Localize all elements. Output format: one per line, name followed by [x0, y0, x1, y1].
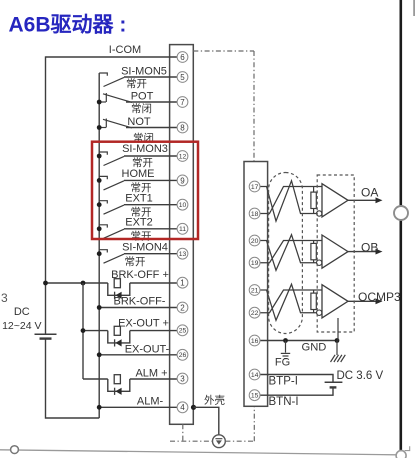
svg-text:14: 14 [251, 372, 259, 379]
svg-text:FG: FG [275, 357, 290, 369]
svg-text:ALM +: ALM + [135, 367, 167, 379]
svg-text:常开: 常开 [126, 77, 147, 90]
svg-text:10: 10 [179, 202, 187, 209]
svg-text:BTP-I: BTP-I [269, 375, 298, 387]
svg-text:20: 20 [251, 238, 259, 245]
svg-text:16: 16 [251, 338, 259, 345]
svg-text:EXT1: EXT1 [125, 193, 153, 205]
svg-text:13: 13 [179, 251, 187, 258]
svg-text:3: 3 [180, 374, 185, 383]
svg-text:A6B驱动器 :: A6B驱动器 : [9, 14, 127, 37]
svg-text:ALM-: ALM- [137, 396, 164, 408]
svg-text:3: 3 [1, 291, 8, 305]
svg-text:NOT: NOT [127, 116, 151, 128]
svg-text:15: 15 [251, 393, 259, 400]
svg-text:SI-MON3: SI-MON3 [122, 143, 168, 155]
svg-text:8: 8 [180, 123, 185, 132]
svg-text:POT: POT [131, 91, 154, 103]
svg-text:19: 19 [251, 260, 259, 267]
svg-text:BRK-OFF +: BRK-OFF + [111, 269, 169, 281]
svg-text:OB: OB [361, 240, 378, 254]
svg-text:EXT2: EXT2 [125, 217, 153, 229]
svg-text:7: 7 [180, 98, 185, 107]
svg-text:12~24 V: 12~24 V [2, 320, 41, 332]
svg-text:SI-MON4: SI-MON4 [122, 242, 168, 254]
svg-text:25: 25 [179, 328, 187, 335]
svg-text:DC: DC [14, 306, 30, 318]
svg-text:17: 17 [251, 184, 259, 191]
svg-text:SI-MON5: SI-MON5 [121, 65, 167, 77]
svg-text:常开: 常开 [125, 255, 146, 268]
svg-text:BTN-I: BTN-I [269, 396, 299, 408]
svg-text:22: 22 [251, 310, 259, 317]
svg-text:26: 26 [179, 352, 187, 359]
svg-text:BRK-OFF-: BRK-OFF- [114, 296, 166, 308]
svg-text:OCMP3: OCMP3 [358, 290, 401, 304]
svg-text:11: 11 [179, 226, 186, 233]
svg-text:5: 5 [180, 73, 185, 82]
svg-text:21: 21 [251, 287, 259, 294]
svg-text:I-COM: I-COM [109, 44, 141, 56]
svg-text:4: 4 [180, 403, 185, 412]
svg-text:GND: GND [302, 342, 327, 354]
svg-text:外壳: 外壳 [204, 393, 225, 406]
svg-text:DC 3.6 V: DC 3.6 V [337, 370, 384, 382]
svg-text:EX-OUT-: EX-OUT- [125, 343, 170, 355]
svg-text:OA: OA [361, 186, 378, 200]
svg-text:9: 9 [180, 176, 185, 185]
svg-text:常开: 常开 [131, 229, 152, 242]
svg-text:6: 6 [180, 53, 185, 62]
svg-text:1: 1 [180, 279, 185, 288]
svg-text:EX-OUT +: EX-OUT + [118, 317, 169, 329]
svg-text:HOME: HOME [122, 168, 155, 180]
svg-text:12: 12 [179, 153, 187, 160]
svg-text:常闭: 常闭 [131, 102, 152, 115]
svg-text:18: 18 [251, 211, 259, 218]
svg-text:2: 2 [180, 303, 185, 312]
